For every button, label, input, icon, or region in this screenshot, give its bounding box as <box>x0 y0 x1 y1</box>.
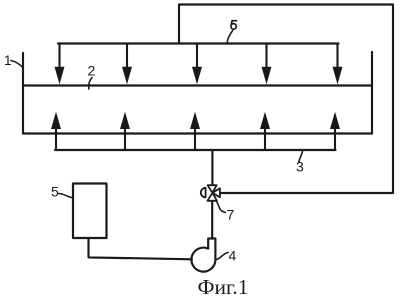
svg-text:3: 3 <box>296 159 304 175</box>
svg-text:2: 2 <box>88 63 96 79</box>
svg-text:Фиг.1: Фиг.1 <box>198 275 249 297</box>
svg-text:4: 4 <box>229 248 237 264</box>
svg-text:1: 1 <box>4 53 12 68</box>
svg-text:5: 5 <box>51 184 59 200</box>
svg-text:7: 7 <box>227 207 235 223</box>
